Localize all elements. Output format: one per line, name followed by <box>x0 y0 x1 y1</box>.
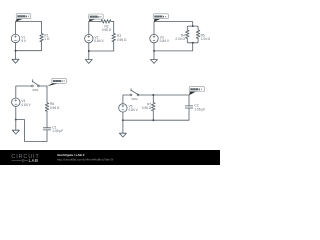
name-tag Circuit_1 <box>16 14 31 22</box>
svg-text:0.84 V: 0.84 V <box>94 39 104 43</box>
wire circuit1 top <box>16 22 42 35</box>
node circuit3 source <box>153 50 155 52</box>
svg-text:SW2: SW2 <box>131 97 138 101</box>
wire circuit2 bottom <box>89 42 114 51</box>
svg-text:LAB: LAB <box>29 158 39 163</box>
svg-text:0.96 Ω: 0.96 Ω <box>50 106 60 110</box>
wire circuit4 source-to-node <box>15 106 17 119</box>
svg-text:SW1: SW1 <box>32 88 39 92</box>
resistor R2 <box>101 20 111 24</box>
name-tag Circuit_2 <box>89 14 104 22</box>
name-tag Circuit_3 <box>153 14 168 22</box>
svg-text:0.84 V: 0.84 V <box>160 39 170 43</box>
wire circuit2 right <box>111 21 114 33</box>
resistor R3 <box>112 33 116 41</box>
svg-text:1 Ω: 1 Ω <box>44 37 50 41</box>
svg-text:http://circuitlab.com/c/4hmb4b: http://circuitlab.com/c/4hmb4bd8vq7/lab-… <box>57 157 114 161</box>
footer bar <box>0 150 220 165</box>
wire circuit5 left <box>123 95 130 104</box>
wire circuit5 right <box>188 108 190 120</box>
node circuit4 <box>15 119 17 121</box>
wire circuit4 bottom detour <box>16 120 47 142</box>
node circuit2 <box>88 50 90 52</box>
wire circuit2 top <box>89 21 101 34</box>
svg-text:1.06 µF: 1.06 µF <box>52 129 63 133</box>
capacitor C2 <box>185 106 192 108</box>
ground circuit1 <box>12 51 19 64</box>
svg-text:0.96 Ω: 0.96 Ω <box>142 106 152 110</box>
switch SW2 <box>130 89 139 96</box>
node circuit3 bus top <box>192 25 194 27</box>
svg-text:2.04 Ω: 2.04 Ω <box>175 37 185 41</box>
wire circuit4 left <box>16 86 32 98</box>
ground circuit2 <box>85 51 92 63</box>
node circuit3 bus bottom <box>192 42 194 44</box>
resistor R7 <box>152 95 156 120</box>
ground circuit3 <box>151 51 158 64</box>
resistor R5 <box>196 30 200 39</box>
ground circuit5 <box>119 120 126 137</box>
voltage source V1 <box>11 34 19 42</box>
node circuit5 source <box>122 119 124 121</box>
resistor R4 <box>186 30 190 39</box>
svg-text:1.04 Ω: 1.04 Ω <box>201 37 211 41</box>
wire circuit3 bottom bus <box>187 39 198 43</box>
voltage source V4 <box>12 98 20 106</box>
wire circuit5 bottom bus <box>123 119 189 121</box>
wire circuit5 source-to-node <box>122 112 124 120</box>
svg-text:0.96 Ω: 0.96 Ω <box>117 38 127 42</box>
wire circuit3 top <box>154 22 193 35</box>
svg-text:9 V: 9 V <box>21 39 27 43</box>
node circuit5 R7 bottom <box>152 119 154 121</box>
label texts <box>21 25 210 133</box>
switch SW1 <box>32 80 40 87</box>
node circuit1 <box>15 50 17 52</box>
svg-text:0.84 V: 0.84 V <box>21 103 31 107</box>
ground circuit4 <box>12 120 19 135</box>
wire circuit3 top bus <box>187 26 198 30</box>
footer logo LAB <box>11 159 27 162</box>
wire circuit4 top-right <box>39 86 47 103</box>
wire circuit5 top-right <box>139 95 189 106</box>
voltage source V3 <box>150 34 158 42</box>
resistor R1 <box>40 34 44 42</box>
name-tag Circuit_4 <box>47 78 66 86</box>
node circuit5 R7 top <box>152 94 154 96</box>
wire circuit4 mid <box>46 111 48 128</box>
resistor R6 <box>45 103 49 112</box>
svg-text:0.84 V: 0.84 V <box>129 108 139 112</box>
wire circuit1 right-bottom <box>16 42 42 51</box>
voltage source V5 <box>119 104 127 112</box>
voltage source V2 <box>85 34 93 42</box>
name-tag Circuit_5 <box>189 87 204 96</box>
svg-text:0.96 Ω: 0.96 Ω <box>102 28 112 32</box>
wire circuit3 bottom <box>154 43 193 51</box>
capacitor C1 <box>43 128 50 130</box>
svg-text:1.06 µF: 1.06 µF <box>194 107 205 111</box>
